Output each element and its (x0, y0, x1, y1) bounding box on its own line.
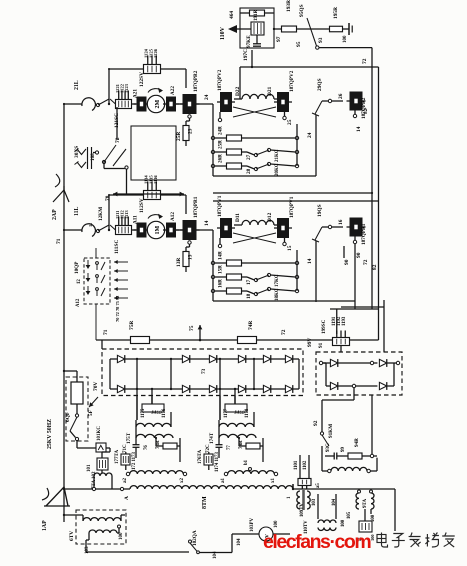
svg-text:19QS: 19QS (317, 204, 323, 217)
svg-text:95QS: 95QS (299, 4, 305, 17)
svg-text:10QP: 10QP (74, 261, 80, 274)
svg-text:112SV: 112SV (139, 198, 145, 213)
svg-text:187QPR1: 187QPR1 (193, 196, 199, 218)
svg-text:72C: 72C (206, 444, 211, 453)
svg-text:1101: 1101 (294, 460, 299, 470)
svg-text:195R: 195R (333, 7, 339, 19)
svg-text:21KC: 21KC (275, 149, 280, 162)
svg-text:25R: 25R (176, 132, 182, 141)
svg-text:A: A (124, 496, 130, 500)
svg-text:71: 71 (103, 329, 109, 335)
svg-text:187QPV1: 187QPV1 (217, 195, 223, 217)
svg-text:90: 90 (356, 252, 362, 258)
svg-text:77PF: 77PF (234, 410, 244, 415)
svg-text:1123: 1123 (124, 83, 129, 93)
svg-text:D21: D21 (267, 86, 273, 96)
svg-text:a5: a5 (316, 483, 321, 488)
svg-text:elecfans·com: elecfans·com (263, 531, 371, 553)
svg-text:2AP: 2AP (52, 209, 58, 220)
svg-text:27: 27 (246, 154, 252, 160)
svg-text:97KE: 97KE (246, 35, 252, 48)
svg-text:122SV: 122SV (139, 72, 145, 87)
svg-text:92: 92 (313, 420, 319, 426)
svg-text:199SC: 199SC (321, 319, 327, 334)
svg-text:14R: 14R (218, 251, 224, 260)
svg-text:24: 24 (307, 132, 313, 138)
svg-text:9TA: 9TA (363, 499, 368, 508)
svg-text:93C: 93C (326, 443, 331, 452)
svg-text:71: 71 (56, 238, 62, 244)
svg-text:18: 18 (246, 293, 252, 299)
svg-text:20KC: 20KC (275, 163, 280, 176)
svg-text:103: 103 (312, 498, 317, 506)
svg-text:104: 104 (237, 538, 242, 546)
svg-text:a2: a2 (123, 478, 128, 484)
svg-text:77PF: 77PF (151, 410, 161, 415)
svg-text:72: 72 (362, 58, 368, 64)
svg-text:6QF: 6QF (65, 411, 71, 422)
svg-text:99V: 99V (307, 338, 313, 347)
svg-text:1176: 1176 (162, 408, 167, 418)
svg-text:76: 76 (144, 445, 149, 450)
svg-text:93: 93 (318, 37, 324, 43)
svg-text:176TA: 176TA (198, 450, 203, 464)
svg-text:70 72 78 75 72: 70 72 78 75 72 (115, 296, 120, 322)
svg-text:75R: 75R (129, 321, 135, 330)
svg-text:100: 100 (370, 534, 375, 541)
svg-text:187QPR2: 187QPR2 (361, 97, 367, 119)
svg-text:1116: 1116 (153, 175, 158, 184)
svg-text:73: 73 (201, 368, 207, 374)
svg-text:1113: 1113 (124, 210, 129, 219)
svg-text:94R: 94R (354, 438, 360, 447)
svg-text:71C: 71C (123, 444, 128, 453)
svg-text:99: 99 (341, 447, 346, 453)
svg-text:1174 1173: 1174 1173 (215, 452, 220, 472)
svg-text:26R: 26R (218, 154, 224, 163)
svg-text:187QPV1: 187QPV1 (289, 196, 295, 218)
svg-text:14: 14 (307, 258, 313, 264)
svg-text:1172 1173: 1172 1173 (132, 452, 137, 472)
svg-text:16R: 16R (218, 279, 224, 288)
svg-text:82: 82 (372, 264, 378, 270)
svg-text:16: 16 (338, 219, 344, 225)
svg-text:13R: 13R (176, 258, 182, 267)
svg-text:D11: D11 (235, 213, 241, 222)
svg-text:8TM: 8TM (202, 496, 208, 509)
svg-text:187QPR1: 187QPR1 (361, 223, 367, 245)
svg-text:6TV: 6TV (69, 531, 75, 541)
svg-text:72: 72 (281, 329, 287, 335)
svg-text:x2: x2 (180, 478, 185, 484)
svg-text:74R: 74R (239, 440, 244, 449)
svg-text:23: 23 (188, 128, 194, 134)
svg-text:77: 77 (227, 445, 232, 450)
svg-text:73R: 73R (156, 440, 161, 449)
svg-text:101KC: 101KC (97, 426, 102, 441)
svg-text:5F: 5F (88, 410, 94, 416)
svg-text:95: 95 (296, 41, 302, 47)
svg-text:12KM: 12KM (98, 207, 104, 221)
svg-text:1AP: 1AP (42, 520, 48, 531)
svg-text:26: 26 (338, 93, 344, 99)
svg-text:2M: 2M (155, 100, 161, 109)
svg-text:100: 100 (274, 520, 279, 528)
svg-text:18KC: 18KC (275, 288, 280, 301)
svg-text:17: 17 (246, 279, 252, 285)
svg-text:1177: 1177 (224, 408, 229, 418)
svg-text:91: 91 (318, 342, 324, 348)
svg-text:15: 15 (287, 245, 293, 251)
svg-text:25R: 25R (218, 140, 224, 149)
svg-text:A12: A12 (76, 298, 81, 307)
svg-text:15R: 15R (218, 265, 224, 274)
svg-text:74R: 74R (248, 321, 254, 330)
svg-text:24R: 24R (218, 126, 224, 135)
svg-text:17KC: 17KC (275, 274, 280, 287)
svg-text:1175: 1175 (141, 408, 146, 418)
svg-text:1193: 1193 (342, 316, 347, 326)
svg-text:90: 90 (344, 259, 350, 265)
svg-text:11L: 11L (74, 207, 80, 216)
svg-text:70V: 70V (93, 382, 99, 391)
svg-text:103PV: 103PV (250, 517, 255, 532)
svg-text:1178: 1178 (245, 408, 250, 418)
svg-text:177TA: 177TA (115, 450, 120, 464)
svg-text:111SC: 111SC (114, 240, 120, 254)
svg-text:174T: 174T (209, 432, 215, 444)
svg-text:1126: 1126 (153, 48, 158, 58)
svg-text:28: 28 (246, 168, 252, 174)
svg-text:197C: 197C (243, 49, 249, 61)
svg-text:a1: a1 (221, 478, 226, 484)
svg-text:1M: 1M (155, 226, 161, 235)
svg-text:14: 14 (204, 220, 210, 226)
svg-text:A12: A12 (170, 212, 176, 221)
svg-text:D22: D22 (235, 86, 241, 96)
svg-text:25KV 50HZ: 25KV 50HZ (47, 419, 53, 449)
svg-text:72: 72 (115, 137, 121, 143)
svg-text:25: 25 (287, 119, 293, 125)
svg-text:193R: 193R (286, 0, 292, 12)
svg-text:187QPV2: 187QPV2 (217, 69, 223, 91)
svg-text:x1: x1 (271, 478, 276, 484)
svg-text:191R: 191R (254, 10, 259, 22)
svg-text:187QPV2: 187QPV2 (289, 70, 295, 92)
svg-text:175T: 175T (126, 432, 132, 444)
svg-text:21L: 21L (74, 80, 80, 90)
svg-text:1102: 1102 (303, 460, 308, 470)
svg-text:82: 82 (363, 108, 369, 114)
svg-text:12: 12 (77, 279, 82, 284)
svg-text:108: 108 (90, 153, 96, 161)
svg-text:11: 11 (88, 222, 93, 227)
svg-text:14: 14 (356, 126, 362, 132)
svg-text:D12: D12 (267, 212, 273, 222)
svg-text:100: 100 (341, 519, 346, 527)
svg-text:29QS: 29QS (317, 78, 323, 91)
svg-text:97: 97 (276, 36, 282, 42)
svg-text:78: 78 (105, 195, 111, 201)
svg-text:187QPR2: 187QPR2 (193, 70, 199, 92)
svg-text:101: 101 (87, 464, 92, 472)
svg-text:72: 72 (363, 259, 369, 265)
svg-text:24: 24 (204, 94, 210, 100)
svg-text:A22: A22 (170, 86, 176, 95)
svg-text:b1: b1 (244, 459, 249, 465)
svg-text:110V: 110V (220, 26, 226, 40)
svg-text:102QA: 102QA (192, 530, 198, 546)
svg-text:75: 75 (189, 325, 195, 331)
svg-text:100: 100 (119, 532, 124, 540)
svg-text:105: 105 (347, 511, 352, 519)
svg-text:13: 13 (188, 254, 194, 260)
svg-text:91KM: 91KM (328, 424, 334, 438)
svg-text:104: 104 (213, 551, 218, 559)
svg-text:464: 464 (229, 11, 235, 19)
svg-text:100: 100 (343, 35, 348, 43)
